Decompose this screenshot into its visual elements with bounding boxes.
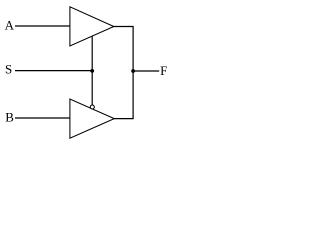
junction dot at F tap — [131, 69, 135, 73]
wire U1 output — [114, 26, 134, 28]
inverting bubble on U2 enable — [90, 105, 94, 109]
svg-text:B: B — [5, 110, 14, 125]
svg-text:A: A — [5, 17, 15, 32]
wire U2 output — [114, 118, 134, 120]
junction dot at S / enable line — [90, 69, 94, 73]
wire B input — [15, 117, 70, 119]
wire A input — [15, 25, 70, 27]
wire U1 enable (from bottom edge of U1 down to S rail and on to U2 bubble) — [91, 36, 93, 105]
wire F output — [133, 70, 159, 72]
buffer U1 (top three-state buffer) — [70, 7, 114, 46]
wire S input — [15, 70, 92, 72]
svg-text:S: S — [5, 62, 12, 77]
wire output bus vertical — [132, 27, 134, 119]
buffer U2 (bottom three-state buffer) — [70, 99, 114, 138]
svg-text:F: F — [160, 63, 167, 78]
